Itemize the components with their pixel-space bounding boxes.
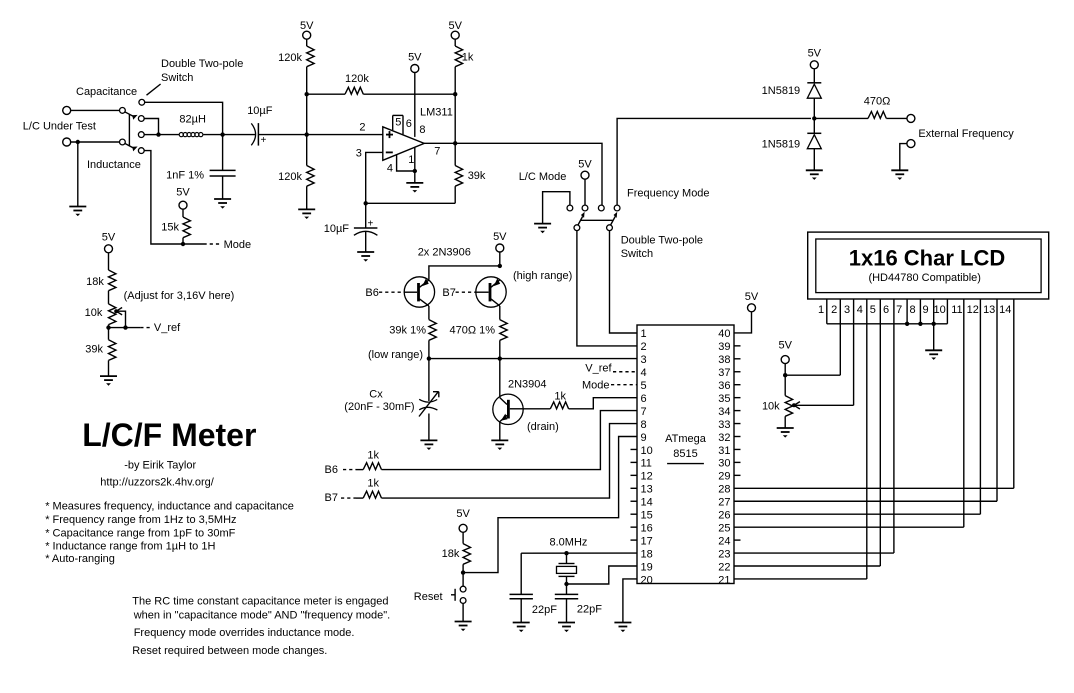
node xyxy=(498,356,502,360)
svg-text:5V: 5V xyxy=(493,231,507,243)
svg-text:36: 36 xyxy=(718,380,730,392)
wire (LCD pin 14) xyxy=(1013,299,1015,488)
wire (LCD pin 6) xyxy=(893,299,895,553)
wire (inductance/mode path) xyxy=(144,151,183,244)
svg-text:5V: 5V xyxy=(300,20,314,32)
op-amp U1 LM311 xyxy=(383,115,424,160)
resistor 39k (divider) xyxy=(109,340,116,361)
svg-text:470Ω 1%: 470Ω 1% xyxy=(449,325,495,337)
svg-text:16: 16 xyxy=(641,522,653,534)
wire (Q3 base) xyxy=(523,408,550,410)
wire (LCD pin 5) xyxy=(879,299,881,566)
svg-text:5: 5 xyxy=(395,117,401,129)
ground xyxy=(69,207,86,217)
node xyxy=(918,322,922,326)
svg-text:17: 17 xyxy=(641,535,653,547)
svg-text:1: 1 xyxy=(641,328,647,340)
svg-text:Cx: Cx xyxy=(369,389,383,401)
svg-text:LM311: LM311 xyxy=(420,106,453,118)
wire (L/C mode to ground) xyxy=(543,192,570,224)
svg-text:when in "capacitance mode" AND: when in "capacitance mode" AND "frequenc… xyxy=(133,610,391,622)
svg-text:http://uzzors2k.4hv.org/: http://uzzors2k.4hv.org/ xyxy=(100,476,214,488)
svg-text:L/C/F Meter: L/C/F Meter xyxy=(82,417,256,453)
svg-text:(low range): (low range) xyxy=(368,349,423,361)
svg-text:120k: 120k xyxy=(278,171,302,183)
wire (pin 19 / XTAL) xyxy=(567,566,638,584)
node xyxy=(564,582,568,586)
wire (dashed) xyxy=(343,469,356,471)
wire xyxy=(462,532,464,543)
svg-text:5: 5 xyxy=(641,380,647,392)
ground xyxy=(513,623,530,633)
svg-text:1x16 Char LCD: 1x16 Char LCD xyxy=(849,246,1006,271)
svg-text:19: 19 xyxy=(641,561,653,573)
diode D2 1N5819 xyxy=(807,133,821,148)
svg-text:21: 21 xyxy=(718,574,730,586)
terminal: External Frequency xyxy=(907,114,915,122)
svg-text:B6: B6 xyxy=(325,464,338,476)
svg-text:The RC time constant capacitan: The RC time constant capacitance meter i… xyxy=(132,596,388,608)
wire xyxy=(363,93,455,95)
svg-text:8: 8 xyxy=(909,304,915,316)
svg-text:14: 14 xyxy=(641,497,653,509)
wire xyxy=(307,93,345,95)
svg-text:35: 35 xyxy=(718,393,730,405)
wire (LCD pin 13) xyxy=(996,299,998,501)
wire xyxy=(306,186,308,209)
wire (LCD pin 4) xyxy=(866,299,868,579)
svg-text:Reset required between mode ch: Reset required between mode changes. xyxy=(132,645,327,657)
wire xyxy=(454,94,456,143)
svg-text:6: 6 xyxy=(406,118,412,130)
wire xyxy=(222,135,224,171)
wire (pin 20 to ground) xyxy=(623,579,637,623)
switch S1 throw B2 xyxy=(138,148,144,154)
svg-text:1nF 1%: 1nF 1% xyxy=(166,169,204,181)
resistor 1k (output pull-up) xyxy=(455,46,462,67)
svg-text:* Measures frequency, inductan: * Measures frequency, inductance and cap… xyxy=(45,501,294,513)
svg-text:8: 8 xyxy=(641,419,647,431)
switch S2 common A xyxy=(574,225,580,231)
svg-text:120k: 120k xyxy=(345,73,369,85)
svg-text:1N5819: 1N5819 xyxy=(762,139,801,151)
pot wiper xyxy=(114,308,125,328)
ground xyxy=(806,170,823,180)
svg-text:1: 1 xyxy=(818,304,824,316)
switch S2 throw 1 (L/C) xyxy=(567,205,573,211)
node xyxy=(106,325,110,329)
svg-text:V_ref: V_ref xyxy=(154,322,181,334)
power 5V (V_ref divider) xyxy=(102,231,116,253)
svg-text:External Frequency: External Frequency xyxy=(918,128,1014,140)
wire (pin 1) xyxy=(414,147,416,171)
svg-text:18: 18 xyxy=(641,548,653,560)
svg-text:39: 39 xyxy=(718,341,730,353)
resistor 1k (B7) xyxy=(363,491,381,498)
capacitor 10uF input (polarized) xyxy=(251,123,266,146)
svg-text:Double Two-pole: Double Two-pole xyxy=(161,58,243,70)
svg-text:22: 22 xyxy=(718,561,730,573)
switch S1 blade A xyxy=(125,112,134,117)
wire xyxy=(365,231,367,252)
node xyxy=(461,570,465,574)
switch S2 throw 4 (freq) xyxy=(614,205,620,211)
ground xyxy=(558,623,575,633)
svg-text:22pF: 22pF xyxy=(532,604,557,616)
svg-text:3: 3 xyxy=(641,354,647,366)
svg-text:3: 3 xyxy=(356,147,362,159)
svg-text:38: 38 xyxy=(718,354,730,366)
wire xyxy=(108,291,110,304)
svg-text:Reset: Reset xyxy=(414,591,443,603)
switch S2 mechanical link xyxy=(581,219,613,221)
diode D1 1N5819 xyxy=(807,83,821,98)
wire xyxy=(428,414,430,441)
wire xyxy=(356,497,363,499)
node xyxy=(305,132,309,136)
power 5V (range transistors) xyxy=(493,231,507,252)
wire (emitter rail) xyxy=(429,266,500,280)
wire (pin 21 to LCD 4) xyxy=(734,578,867,580)
wire (B7 to pin 8) xyxy=(382,424,638,499)
svg-text:15k: 15k xyxy=(161,222,179,234)
wire (pin 25 to LCD 11) xyxy=(734,526,964,528)
switch S1 common A xyxy=(120,108,126,114)
svg-text:4: 4 xyxy=(387,163,393,175)
ground xyxy=(534,224,551,234)
svg-text:* Inductance range from 1µH to: * Inductance range from 1µH to 1H xyxy=(45,541,215,553)
LCD module outline xyxy=(808,232,1049,299)
svg-text:1k: 1k xyxy=(367,477,379,489)
wire xyxy=(784,416,786,428)
svg-text:Frequency Mode: Frequency Mode xyxy=(627,188,710,200)
svg-text:Capacitance: Capacitance xyxy=(76,86,137,98)
switch S1 throw A1 (Capacitance) xyxy=(139,99,145,105)
node xyxy=(498,264,502,268)
svg-text:6: 6 xyxy=(641,393,647,405)
node xyxy=(812,116,816,120)
svg-text:5V: 5V xyxy=(408,52,422,64)
power 5V (1k pull-up) xyxy=(448,20,462,39)
svg-text:37: 37 xyxy=(718,367,730,379)
svg-text:5V: 5V xyxy=(448,20,462,32)
wire xyxy=(454,67,456,95)
power 5V (mode switch) xyxy=(578,159,592,180)
capacitor 1nF 1% xyxy=(210,170,236,176)
wire xyxy=(182,209,184,217)
wire (to pin 1) xyxy=(610,231,638,333)
svg-text:L/C Mode: L/C Mode xyxy=(519,171,567,183)
ground xyxy=(891,170,908,180)
svg-text:7: 7 xyxy=(434,145,440,157)
wire (pin 26 to LCD 12) xyxy=(734,513,980,515)
wire xyxy=(813,69,815,83)
ground xyxy=(455,622,472,632)
svg-text:* Auto-ranging: * Auto-ranging xyxy=(45,553,115,565)
ground xyxy=(214,199,231,209)
ground xyxy=(777,428,794,438)
wire xyxy=(144,119,158,135)
wire xyxy=(258,134,306,136)
svg-text:1N5819: 1N5819 xyxy=(762,85,801,97)
svg-text:470Ω: 470Ω xyxy=(864,96,891,108)
LCD pin numbers 1-14 xyxy=(818,304,1011,316)
wire xyxy=(306,94,308,134)
wire xyxy=(356,469,363,471)
wire (pin 28 to LCD 14) xyxy=(734,487,1014,489)
wire (LCD pin 8) xyxy=(919,299,921,324)
wire xyxy=(499,340,501,358)
pot wiper (contrast) xyxy=(792,402,854,409)
svg-text:* Frequency range from 1Hz to: * Frequency range from 1Hz to 3,5MHz xyxy=(45,514,236,526)
svg-text:4: 4 xyxy=(641,367,647,379)
node xyxy=(564,551,568,555)
svg-text:24: 24 xyxy=(718,535,730,547)
svg-text:4: 4 xyxy=(857,304,863,316)
node xyxy=(932,322,936,326)
svg-text:10: 10 xyxy=(641,445,653,457)
svg-text:120k: 120k xyxy=(278,52,302,64)
wire xyxy=(462,564,464,572)
svg-text:1k: 1k xyxy=(462,52,474,64)
wire (dashed) xyxy=(341,497,356,499)
wire xyxy=(306,67,308,95)
wire xyxy=(886,117,907,119)
svg-text:6: 6 xyxy=(883,304,889,316)
svg-text:13: 13 xyxy=(983,304,995,316)
svg-text:Switch: Switch xyxy=(161,72,193,84)
svg-text:32: 32 xyxy=(718,432,730,444)
resistor 120k (lower) xyxy=(307,166,314,187)
wire (LCD pin 3) xyxy=(853,299,855,405)
wire xyxy=(813,98,815,133)
inductor 82uH xyxy=(179,133,203,137)
label: Double Two-pole Switch (S2) xyxy=(621,235,703,260)
svg-text:5: 5 xyxy=(870,304,876,316)
wire xyxy=(159,134,180,136)
switch S2 throw 3 (osc) xyxy=(598,205,604,211)
resistor 120k (upper) xyxy=(307,46,314,67)
switch S1 mechanical link xyxy=(128,114,130,145)
svg-text:27: 27 xyxy=(718,497,730,509)
node xyxy=(305,92,309,96)
wire (dashed) xyxy=(456,291,476,293)
capacitor 10uF (inverting node, polarized) xyxy=(354,219,378,236)
wire xyxy=(569,398,637,409)
svg-text:5V: 5V xyxy=(745,291,759,303)
svg-text:23: 23 xyxy=(718,548,730,560)
wire xyxy=(584,179,586,205)
svg-text:25: 25 xyxy=(718,522,730,534)
svg-text:ATmega: ATmega xyxy=(665,433,707,445)
node xyxy=(427,356,431,360)
wire xyxy=(366,202,456,204)
wire xyxy=(144,134,158,136)
wire xyxy=(499,422,501,441)
svg-text:5V: 5V xyxy=(778,339,792,351)
switch S1 blade B xyxy=(125,143,134,148)
wire xyxy=(814,117,868,119)
svg-text:(20nF - 30mF): (20nF - 30mF) xyxy=(344,401,414,413)
svg-text:10k: 10k xyxy=(85,307,103,319)
node xyxy=(413,169,417,173)
svg-text:33: 33 xyxy=(718,419,730,431)
switch S1 common B xyxy=(120,139,126,145)
svg-text:Switch: Switch xyxy=(621,248,653,260)
svg-text:L/C Under Test: L/C Under Test xyxy=(23,120,96,132)
svg-text:B7: B7 xyxy=(442,287,455,299)
wire xyxy=(428,306,430,320)
svg-text:Mode: Mode xyxy=(582,379,610,391)
svg-text:20: 20 xyxy=(641,574,653,586)
wire xyxy=(414,171,416,183)
svg-text:(drain): (drain) xyxy=(527,421,559,433)
resistor 39k 1% xyxy=(429,320,436,341)
svg-text:(HD44780 Compatible): (HD44780 Compatible) xyxy=(868,272,981,284)
svg-text:22pF: 22pF xyxy=(577,604,602,616)
wire (LCD pin 12) xyxy=(979,299,981,514)
svg-text:10µF: 10µF xyxy=(324,223,350,235)
label: Double Two-pole Switch xyxy=(147,58,244,95)
wire xyxy=(813,149,815,171)
resistor 470R xyxy=(868,112,886,119)
switch S1 throw B1 xyxy=(138,132,144,138)
switch S2 blade A xyxy=(578,217,583,226)
ground xyxy=(614,623,631,633)
power 5V (left rail) xyxy=(300,20,314,39)
node (ground tap) xyxy=(76,140,80,144)
potentiometer 10k (contrast) xyxy=(785,396,792,417)
ground xyxy=(100,376,117,386)
wire (LCD pin 2) xyxy=(839,299,841,375)
wire xyxy=(223,134,256,136)
pin numbers left 1-20 xyxy=(641,328,653,586)
wire (dashed) xyxy=(379,291,404,293)
resistor 470R 1% xyxy=(500,320,507,341)
ground xyxy=(491,440,508,450)
power 5V (clamp) xyxy=(808,48,822,69)
potentiometer 10k xyxy=(109,304,116,325)
power 5V (reset pull-up) xyxy=(456,508,470,532)
svg-text:14: 14 xyxy=(999,304,1011,316)
wire (output to switch) xyxy=(455,143,602,205)
terminal: L/C Under Test bottom xyxy=(63,138,71,146)
wire (pin 18 / XTAL) xyxy=(521,552,637,554)
switch S2 throw 2 (5V) xyxy=(582,205,588,211)
svg-text:10µF: 10µF xyxy=(247,105,273,117)
wire xyxy=(222,176,224,199)
svg-text:12: 12 xyxy=(967,304,979,316)
LCD ground bus xyxy=(827,323,948,325)
wire xyxy=(566,553,568,563)
wire xyxy=(306,39,308,46)
svg-text:2: 2 xyxy=(359,122,365,134)
node xyxy=(453,92,457,96)
capacitor 22pF (left) xyxy=(510,594,533,598)
transistor Q3 2N3904 xyxy=(493,394,523,424)
wire (LCD Vcc) xyxy=(785,374,840,376)
svg-text:1k: 1k xyxy=(367,449,379,461)
wire xyxy=(520,599,522,623)
wire (LCD pin 1) xyxy=(826,299,828,324)
svg-text:+: + xyxy=(367,219,373,230)
wire (pin 27 to LCD 13) xyxy=(734,500,997,502)
svg-text:2N3904: 2N3904 xyxy=(508,379,547,391)
ground xyxy=(406,183,423,193)
resistor 120k (feedback) xyxy=(345,87,363,94)
svg-text:* Capacitance range from 1pF t: * Capacitance range from 1pF to 30mF xyxy=(45,527,235,539)
crystal X1 8.0MHz xyxy=(557,564,577,577)
svg-text:5V: 5V xyxy=(176,187,190,199)
wire (pin 4) xyxy=(397,154,415,171)
svg-text:8: 8 xyxy=(419,124,425,136)
wire (dashed) V_ref pin 4 xyxy=(613,371,637,373)
node xyxy=(783,373,787,377)
resistor 18k xyxy=(109,270,116,291)
wire (LCD pin 9) xyxy=(933,299,935,350)
svg-text:39k: 39k xyxy=(85,343,103,355)
svg-text:2: 2 xyxy=(831,304,837,316)
ground xyxy=(420,440,437,450)
wire xyxy=(108,360,110,376)
wire (to pin 2) xyxy=(577,231,637,346)
svg-text:8.0MHz: 8.0MHz xyxy=(550,537,588,549)
svg-text:1: 1 xyxy=(408,154,414,166)
wire (capacitance path) xyxy=(145,102,223,134)
wire xyxy=(306,135,308,166)
transistor Q1 2N3906 xyxy=(404,277,434,307)
wire xyxy=(71,141,120,143)
svg-text:39k: 39k xyxy=(468,170,486,182)
svg-text:3: 3 xyxy=(844,304,850,316)
wire (Q3 collector) xyxy=(499,359,501,398)
wire (pin 8/6) xyxy=(414,73,416,137)
resistor 1k (Q3 base) xyxy=(550,402,568,409)
wire (pin 23 to LCD 6) xyxy=(734,552,894,554)
svg-text:Double Two-pole: Double Two-pole xyxy=(621,235,703,247)
wire xyxy=(454,39,456,46)
svg-text:1k: 1k xyxy=(554,390,566,402)
wire xyxy=(900,144,907,171)
wire (to pin 3 PD2) xyxy=(429,358,637,360)
terminal: L/C Under Test top xyxy=(63,106,71,114)
wire xyxy=(428,340,430,358)
power 5V (pin 40) xyxy=(745,291,759,312)
terminal: ground reference xyxy=(907,140,915,148)
node xyxy=(905,322,909,326)
svg-text:39k 1%: 39k 1% xyxy=(389,325,426,337)
svg-text:B7: B7 xyxy=(325,492,338,504)
switch S1 throw A2 xyxy=(138,116,144,122)
transistor Q2 2N3906 xyxy=(476,277,506,307)
svg-text:82µH: 82µH xyxy=(179,114,206,126)
svg-text:12: 12 xyxy=(641,471,653,483)
capacitor Cx (variable) xyxy=(419,392,439,417)
svg-text:31: 31 xyxy=(718,445,730,457)
wire xyxy=(365,203,367,228)
wire xyxy=(499,306,501,320)
unconnected left pin stubs 10-17 xyxy=(631,449,638,540)
wire xyxy=(203,134,222,136)
switch S2 common B xyxy=(607,225,613,231)
svg-text:V_ref: V_ref xyxy=(585,363,612,375)
wire xyxy=(566,576,568,584)
svg-text:18k: 18k xyxy=(442,548,460,560)
svg-text:9: 9 xyxy=(922,304,928,316)
ground xyxy=(357,252,374,262)
node xyxy=(453,141,457,145)
IC U2 ATmega 8515 body xyxy=(637,325,734,584)
